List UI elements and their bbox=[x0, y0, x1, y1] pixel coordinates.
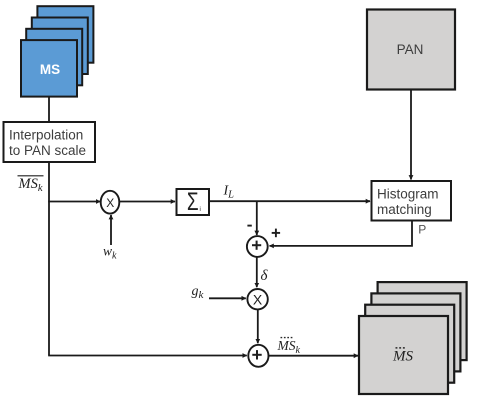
wire adder1 to multiplier2 bbox=[256, 257, 258, 287]
wire sum to histogram matching bbox=[209, 200, 370, 202]
wire MS stack to interpolation box bbox=[48, 97, 50, 122]
svg-text:MS: MS bbox=[40, 62, 60, 77]
svg-text:wk: wk bbox=[103, 243, 117, 261]
PAN input box bbox=[367, 10, 455, 90]
MS input image stack bbox=[21, 6, 93, 96]
svg-text:X: X bbox=[253, 291, 263, 307]
svg-text:IL: IL bbox=[223, 184, 235, 201]
svg-text:MSk: MSk bbox=[277, 338, 301, 356]
gain input gk bbox=[192, 284, 246, 301]
wire bottom rail trunk to adder2 bbox=[48, 355, 247, 357]
output MS-hat image stack bbox=[359, 282, 467, 394]
wire multiplier2 to adder2 bbox=[257, 309, 259, 343]
wire adder2 to output stack bbox=[269, 355, 358, 357]
wire junction down to adder1 bbox=[256, 201, 258, 235]
svg-text:X: X bbox=[106, 196, 114, 210]
multiplier X1 (weights) bbox=[101, 191, 120, 214]
svg-text:MS: MS bbox=[392, 349, 413, 365]
wire trunk vertical from interpolation down bbox=[48, 162, 50, 356]
svg-text:gk: gk bbox=[192, 284, 205, 301]
svg-text:to PAN scale: to PAN scale bbox=[9, 143, 86, 158]
minus sign label bbox=[247, 225, 251, 227]
plus sign label bbox=[272, 229, 280, 238]
weight input wk bbox=[103, 215, 117, 261]
svg-text:Histogram: Histogram bbox=[377, 187, 439, 202]
sum block sigma bbox=[177, 188, 210, 216]
svg-text:PAN: PAN bbox=[397, 42, 424, 57]
svg-text:P: P bbox=[418, 223, 426, 237]
node label MS-bar k bbox=[18, 176, 44, 194]
node label MS-hat k bbox=[277, 338, 301, 356]
svg-text:matching: matching bbox=[377, 202, 432, 217]
svg-text:i: i bbox=[200, 207, 201, 213]
svg-text:MSk: MSk bbox=[18, 176, 43, 194]
svg-text:Interpolation: Interpolation bbox=[9, 128, 83, 143]
adder2 circle bbox=[248, 345, 268, 367]
svg-text:δ: δ bbox=[261, 268, 269, 284]
wire branch to weight multiplier bbox=[48, 201, 100, 203]
wire histogram output to adder1 bbox=[270, 221, 413, 246]
wire multiplier to sum block bbox=[120, 201, 176, 203]
histogram matching box bbox=[372, 181, 452, 221]
wire PAN to histogram matching bbox=[410, 90, 412, 180]
multiplier X2 (gains) bbox=[247, 289, 267, 309]
interpolation box bbox=[4, 122, 96, 162]
adder1 circle bbox=[247, 236, 268, 257]
svg-text:Σ: Σ bbox=[187, 188, 199, 216]
